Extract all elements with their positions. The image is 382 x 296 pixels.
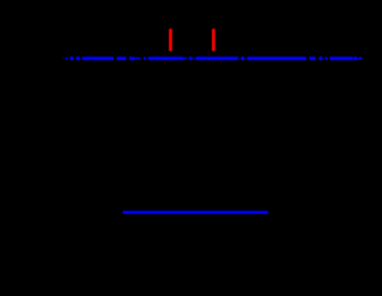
red tick 2 xyxy=(212,29,215,51)
top event line dashes xyxy=(82,57,114,60)
top event line dots xyxy=(63,57,65,59)
red tick 1 xyxy=(169,29,172,51)
bottom segment xyxy=(123,211,268,214)
